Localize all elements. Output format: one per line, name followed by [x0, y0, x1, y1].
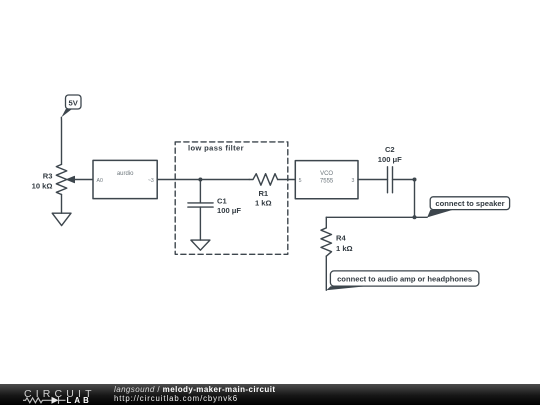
power flag 5V [61, 95, 81, 117]
svg-text:1 kΩ: 1 kΩ [255, 199, 272, 208]
svg-text:aurdio: aurdio [117, 171, 134, 177]
flag connect to speaker [427, 197, 509, 218]
svg-text:3: 3 [352, 178, 355, 184]
svg-text:~3: ~3 [148, 178, 154, 184]
wire C2 to corner [393, 179, 415, 181]
svg-text:5: 5 [299, 178, 302, 184]
svg-text:100 μF: 100 μF [378, 155, 402, 164]
svg-text:VCO: VCO [320, 171, 333, 177]
wire aurdio pin3 to R1 [157, 179, 249, 181]
ground (under C1) [191, 240, 210, 250]
wire down to lower net [414, 180, 416, 218]
wire VCO pin3 to C2 [358, 179, 388, 181]
wire lower net horizontal [326, 216, 427, 218]
svg-text:A0: A0 [97, 178, 103, 184]
potentiometer R3 [56, 164, 67, 194]
svg-text:7555: 7555 [320, 178, 334, 184]
svg-text:C1: C1 [217, 197, 227, 206]
resistor R4 [321, 228, 332, 256]
wire wiper to A0 [75, 179, 94, 181]
ground (under R3) [52, 213, 71, 225]
CircuitLab logo [0, 384, 110, 405]
svg-text:R4: R4 [336, 234, 346, 243]
wire corner down to R4 [325, 217, 327, 228]
svg-text:10 kΩ: 10 kΩ [32, 181, 53, 190]
node junction top [413, 178, 417, 182]
wire R4 to flag anchor [325, 256, 327, 290]
wire R1 to VCO pin5 [278, 179, 296, 181]
R3 wiper arrow [67, 176, 75, 182]
wire R3 to ground [61, 195, 63, 214]
svg-text:LAB: LAB [67, 396, 92, 405]
wire C1 to ground [199, 207, 201, 240]
svg-text:1 kΩ: 1 kΩ [336, 244, 353, 253]
node junction lower [413, 215, 417, 219]
svg-text:R1: R1 [258, 189, 268, 198]
capacitor C2 [388, 167, 393, 193]
flag connect to audio amp or headphones [326, 271, 479, 290]
svg-text:connect to speaker: connect to speaker [435, 199, 504, 208]
svg-text:5V: 5V [69, 98, 79, 107]
footer bar [0, 384, 540, 405]
wire junction to C1 [199, 180, 201, 203]
resistor R1 [249, 174, 277, 186]
capacitor C1 [188, 203, 213, 207]
svg-text:R3: R3 [43, 171, 53, 180]
svg-text:100 μF: 100 μF [217, 206, 241, 215]
low pass filter dashed box [175, 142, 288, 254]
IC aurdio [93, 160, 157, 198]
IC VCO 7555 [295, 161, 358, 199]
wire 5V to R3 [60, 117, 62, 164]
node junction C1 [198, 178, 202, 182]
svg-text:low pass filter: low pass filter [188, 143, 244, 152]
svg-text:C2: C2 [385, 145, 395, 154]
footer text [114, 385, 275, 403]
svg-text:connect to audio amp or headph: connect to audio amp or headphones [337, 275, 472, 284]
